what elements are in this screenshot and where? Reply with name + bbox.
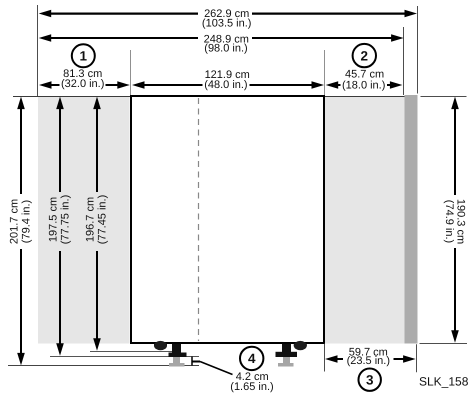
svg-text:(74.9 in.): (74.9 in.) [443,200,455,243]
extension line top right for 190.3 [421,96,467,98]
svg-text:196.7 cm: 196.7 cm [85,197,97,242]
dimension 45.7 cm line [326,78,403,90]
vertical dimension 197.5 cm line [56,97,64,356]
svg-text:4: 4 [248,351,256,366]
svg-text:197.5 cm: 197.5 cm [48,197,60,242]
svg-text:(77.45 in.): (77.45 in.) [97,195,109,245]
vertical dimension 190.3 cm line [451,97,459,343]
callout circle 3 [359,369,381,391]
extension line cabinet-right below [324,344,326,372]
svg-text:(48.0 in.): (48.0 in.) [204,79,247,91]
svg-text:(1.65 in.): (1.65 in.) [230,381,273,393]
leader line to 4.2 cm label [200,362,233,375]
left service clearance band [38,97,130,344]
cabinet outline [131,96,324,343]
baseline 197.5 ref [50,356,199,358]
extension line cabinet-left top [130,50,132,95]
svg-text:SLK_158: SLK_158 [419,374,469,388]
svg-text:(103.5 in.): (103.5 in.) [202,17,252,29]
svg-text:3: 3 [366,373,374,388]
svg-text:190.3 cm: 190.3 cm [455,199,467,244]
cabinet centerline (dashed) [198,98,200,341]
svg-text:(79.4 in.): (79.4 in.) [20,200,32,243]
vertical dimension 201.7 cm line [17,97,25,366]
right service clearance band [325,97,405,344]
right caster [294,341,307,350]
vertical dimension 196.7 cm line [93,97,101,351]
top reference line [13,96,417,98]
svg-text:(18.0 in.): (18.0 in.) [342,80,385,92]
baseline 196.7 ref [90,351,181,353]
dimension 248.9 cm line [39,34,404,42]
dimension 59.7 cm line [325,354,416,366]
dimension 262.9 cm line [39,10,417,18]
callout circle 1 [72,44,95,67]
svg-text:(23.5 in.): (23.5 in.) [347,355,390,367]
svg-text:1: 1 [80,49,88,64]
svg-text:(98.0 in.): (98.0 in.) [204,43,247,55]
svg-text:(32.0 in.): (32.0 in.) [61,78,104,90]
svg-text:201.7 cm: 201.7 cm [8,199,20,244]
callout circle 2 [353,44,376,67]
svg-text:2: 2 [361,48,369,63]
right dark wall strip [405,95,418,344]
left caster [154,341,167,350]
callout circle 4 [240,347,263,370]
svg-text:(77.75 in.): (77.75 in.) [60,195,72,245]
extension line left x38 [37,5,39,96]
dimension 121.9 cm line [132,78,324,90]
foot height bracket [192,357,200,366]
extension line cabinet-right top [324,50,326,95]
right leveling foot [276,344,298,367]
extension line x417 [417,6,419,94]
extension line x417 below [416,344,418,372]
floor line [8,365,199,367]
extension line bottom right for 190.3 [420,343,468,345]
extension line x403 [403,27,405,95]
left leveling foot [169,344,187,367]
dimension 81.3 cm line [39,78,130,90]
